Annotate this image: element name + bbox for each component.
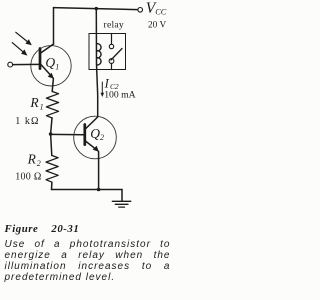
svg-text:I: I — [104, 76, 110, 90]
relay coil — [97, 44, 101, 65]
svg-text:CC: CC — [155, 8, 167, 17]
wire: R1 to node A — [51, 118, 52, 134]
svg-text:100 Ω: 100 Ω — [15, 171, 41, 182]
svg-text:R: R — [27, 152, 37, 167]
svg-text:2: 2 — [100, 133, 104, 142]
svg-text:Q: Q — [45, 55, 55, 70]
junction: node A (R1/R2/Q2 base) — [49, 132, 53, 136]
wire: bottom rail — [52, 189, 123, 191]
wire: R2 to bottom rail — [51, 182, 53, 189]
resistor R1 — [46, 92, 58, 119]
wire: bottom rail to ground — [121, 190, 123, 202]
light arrow 2 — [12, 43, 27, 56]
wire: node A to Q2 base — [51, 133, 84, 135]
phototransistor Q1 — [31, 44, 71, 86]
junction: top rail / relay branch — [95, 7, 98, 10]
wire: top supply rail — [54, 8, 138, 10]
ground — [112, 201, 131, 207]
svg-text:2: 2 — [37, 159, 41, 168]
relay switch bottom contact — [109, 59, 114, 64]
terminal Vcc — [138, 8, 143, 13]
svg-text:relay: relay — [104, 20, 124, 31]
wire: node A to R2 — [51, 134, 52, 156]
relay switch blade — [111, 49, 122, 61]
svg-text:1 kΩ: 1 kΩ — [15, 116, 39, 127]
svg-text:100 mA: 100 mA — [104, 90, 135, 101]
light arrow 1 — [16, 32, 32, 45]
junction: emitter / bottom rail — [97, 188, 101, 192]
wire: Q1 collector to top rail — [53, 8, 55, 44]
relay box — [89, 34, 126, 70]
wire: relay branch from top rail down through coil to Q2 collector — [96, 9, 97, 117]
wire: Q1 base lead — [13, 63, 39, 65]
terminal: Q1 base input — [8, 62, 13, 67]
current arrow IC2 — [101, 82, 103, 95]
svg-text:1: 1 — [55, 62, 59, 71]
svg-text:Q: Q — [90, 126, 100, 141]
svg-text:1: 1 — [40, 102, 44, 111]
caption — [5, 224, 171, 283]
wire: Q2 emitter down to bottom rail — [98, 152, 100, 190]
transistor Q2 — [74, 116, 117, 159]
relay switch top contact — [111, 34, 113, 45]
svg-text:R: R — [29, 95, 39, 110]
resistor R2 — [46, 156, 58, 183]
wire: Q1 emitter to R1 — [52, 79, 53, 92]
svg-text:20 V: 20 V — [148, 20, 166, 30]
